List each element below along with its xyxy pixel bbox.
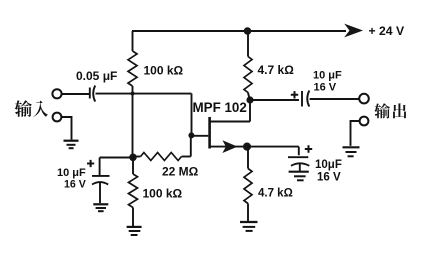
ground (R5) <box>240 221 258 223</box>
arrowhead +24V <box>344 24 363 38</box>
label 输出 (output) <box>374 103 406 118</box>
wire bias node to C3 <box>100 158 133 176</box>
wire gate node down to Q1 gate <box>191 94 193 136</box>
wire C1 to gate node <box>96 93 192 95</box>
junction gate <box>188 132 194 138</box>
wire input to C1 <box>62 93 89 95</box>
ground (R4) <box>127 226 142 228</box>
svg-text:10 μF: 10 μF <box>313 70 342 82</box>
junction gate node / R1 <box>131 92 135 96</box>
wire R3 to gate junction <box>190 135 192 156</box>
wire source node to C4 <box>247 147 299 156</box>
ground (C4) <box>289 171 309 173</box>
plus sign C2 <box>291 91 298 98</box>
svg-text:MPF 102: MPF 102 <box>193 100 247 115</box>
svg-text:+ 24 V: + 24 V <box>369 24 405 38</box>
wire +24V supply rail <box>132 30 346 32</box>
junction rail/R2 <box>244 27 252 35</box>
junction bias node <box>129 154 137 162</box>
capacitor C1 0.05µF <box>89 88 91 99</box>
transistor Q1 drain lead <box>211 100 251 122</box>
transistor Q1 MPF102 gate lead <box>191 135 208 137</box>
output terminal upper <box>359 94 369 104</box>
svg-text:4.7 kΩ: 4.7 kΩ <box>258 188 293 200</box>
resistor R2 4.7kΩ drain load <box>247 31 249 57</box>
wire lower input to ground <box>61 117 71 140</box>
resistor R4 100kΩ bias <box>132 157 134 174</box>
svg-text:16 V: 16 V <box>64 178 86 190</box>
capacitor C4 10µF source bypass <box>288 156 308 158</box>
ground (output) <box>343 146 360 148</box>
svg-text:16 V: 16 V <box>317 171 341 183</box>
capacitor C3 10µF bias bypass <box>92 175 110 177</box>
plus sign C3 <box>87 160 94 167</box>
ground (C3) <box>93 203 108 205</box>
svg-text:0.05 μF: 0.05 μF <box>76 69 117 83</box>
resistor R3 22MΩ feedback <box>133 156 141 158</box>
wire C2 to output terminal <box>310 98 359 100</box>
svg-text:100 kΩ: 100 kΩ <box>144 63 184 77</box>
svg-text:16 V: 16 V <box>314 82 337 94</box>
wire drain node to C2 <box>250 99 299 101</box>
input terminal upper <box>52 89 61 98</box>
input terminal lower <box>53 113 62 122</box>
output terminal lower <box>360 117 369 126</box>
ground (input) <box>64 140 79 142</box>
junction drain node <box>246 96 253 103</box>
resistor R5 4.7kΩ source <box>247 147 249 169</box>
resistor R1 100kΩ upper-left <box>132 31 134 51</box>
capacitor C2 10µF output coupling <box>301 91 303 107</box>
svg-text:22 MΩ: 22 MΩ <box>162 165 199 179</box>
svg-text:4.7 kΩ: 4.7 kΩ <box>258 63 295 77</box>
transistor Q1 channel bar <box>208 117 211 149</box>
wire lower output to ground <box>351 121 360 146</box>
wire gate node down to bias node <box>132 94 134 158</box>
label 输入 (input) <box>15 100 48 117</box>
junction source node <box>243 143 251 151</box>
plus sign C4 <box>305 145 312 152</box>
transistor Q1 source lead with arrow <box>211 146 244 148</box>
svg-text:10μF: 10μF <box>315 159 342 171</box>
svg-text:10 μF: 10 μF <box>57 167 86 179</box>
svg-text:100 kΩ: 100 kΩ <box>143 186 183 200</box>
